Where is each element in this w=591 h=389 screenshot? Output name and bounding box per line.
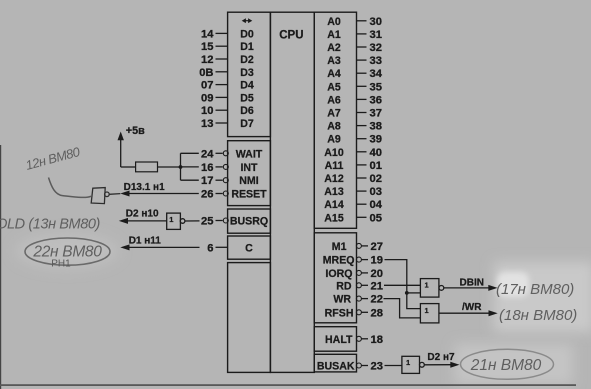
wire to pin 17	[181, 179, 199, 181]
svg-text:16: 16	[201, 162, 213, 174]
svg-text:09: 09	[201, 92, 213, 104]
svg-text:D1: D1	[240, 41, 254, 53]
svg-text:02: 02	[370, 173, 382, 185]
D0-D7 labels	[240, 28, 254, 130]
svg-text:RD: RD	[336, 280, 352, 292]
svg-text:30: 30	[370, 16, 382, 28]
svg-text:A10: A10	[324, 147, 344, 159]
svg-text:24: 24	[201, 148, 214, 160]
svg-text:01: 01	[370, 160, 382, 172]
svg-text:RFSH: RFSH	[325, 307, 354, 319]
svg-text:39: 39	[370, 134, 382, 146]
svg-text:D2 н10: D2 н10	[126, 208, 159, 219]
svg-text:D2 н7: D2 н7	[427, 352, 455, 363]
svg-text:13: 13	[201, 118, 213, 130]
CPU left sub-box BUSRQ	[228, 209, 271, 233]
svg-text:15: 15	[201, 41, 213, 53]
svg-text:1: 1	[425, 306, 429, 315]
A pin stubs	[357, 21, 367, 218]
svg-text:A11: A11	[325, 160, 344, 172]
svg-text:D13.1 н1: D13.1 н1	[124, 182, 166, 193]
wire WR 22 to gate2	[384, 299, 421, 318]
svg-text:MREQ: MREQ	[323, 255, 355, 267]
svg-text:M1: M1	[332, 241, 347, 253]
gate U1 DBIN	[420, 279, 443, 298]
svg-text:34: 34	[370, 68, 383, 80]
svg-text:D4: D4	[240, 80, 254, 92]
svg-text:0B: 0B	[199, 67, 213, 79]
svg-text:HALT: HALT	[325, 334, 353, 346]
svg-text:26: 26	[201, 189, 213, 201]
svg-text:22: 22	[371, 294, 383, 306]
gate U2 WR	[420, 304, 439, 323]
svg-text:23: 23	[371, 361, 383, 373]
svg-text:38: 38	[370, 121, 382, 133]
junction dot	[179, 165, 183, 169]
svg-text:33: 33	[370, 55, 382, 67]
light patch behind left oval	[15, 233, 119, 269]
svg-text:20: 20	[371, 268, 383, 280]
svg-text:1: 1	[425, 281, 429, 290]
svg-text:A4: A4	[327, 68, 341, 80]
svg-text:32: 32	[370, 42, 382, 54]
svg-text:A5: A5	[327, 81, 341, 93]
svg-text:36: 36	[370, 94, 382, 106]
svg-text:WAIT: WAIT	[236, 148, 263, 160]
right control bubbles	[356, 243, 361, 368]
wire resistor to junction	[158, 166, 181, 168]
svg-text:D6: D6	[240, 105, 254, 117]
svg-text:A13: A13	[324, 186, 344, 198]
resistor R1	[136, 162, 158, 172]
A pin numbers	[370, 16, 383, 225]
D pin stubs	[216, 33, 228, 123]
svg-text:D0: D0	[240, 28, 254, 40]
svg-text:40: 40	[370, 147, 382, 159]
CPU right sub-box BUSAK	[314, 354, 356, 372]
svg-text:+5в: +5в	[126, 125, 145, 137]
svg-text:DBIN: DBIN	[460, 277, 484, 288]
svg-text:D3: D3	[240, 67, 254, 79]
svg-text:27: 27	[371, 241, 383, 253]
svg-text:10: 10	[201, 105, 213, 117]
svg-text:25: 25	[201, 216, 213, 228]
wire to pin 16	[181, 166, 199, 168]
handwritten oval 21n VM80	[461, 349, 554, 379]
svg-text:1: 1	[169, 215, 173, 224]
RESET wire with left arrow	[120, 191, 199, 197]
svg-text:A6: A6	[327, 94, 341, 106]
svg-text:INT: INT	[240, 162, 258, 174]
svg-text:A15: A15	[324, 212, 344, 224]
inversion bubbles left pins	[223, 151, 228, 223]
+5V arrow	[118, 132, 136, 168]
svg-text:04: 04	[370, 199, 383, 211]
svg-text:35: 35	[370, 81, 382, 93]
CPU middle box	[270, 12, 314, 372]
svg-text:31: 31	[370, 29, 382, 41]
svg-text:РН1: РН1	[51, 259, 71, 270]
wire BUSAK 23 to gate3	[385, 365, 402, 367]
CPU right sub-box HALT	[314, 327, 356, 352]
svg-text:D5: D5	[240, 92, 254, 104]
scan dark edge left	[0, 145, 1, 389]
wire to pin 24	[181, 152, 199, 154]
scan fold line bottom	[0, 384, 576, 386]
svg-text:(17н ВМ80): (17н ВМ80)	[496, 281, 574, 298]
white-out patch behind 17	[497, 272, 529, 297]
CPU left sub-box empty	[228, 263, 271, 373]
svg-text:05: 05	[370, 212, 382, 224]
wire +5V to resistor	[121, 166, 136, 168]
svg-text:6: 6	[207, 242, 213, 254]
svg-text:A12: A12	[324, 173, 344, 185]
pencil squiggle to gate input	[49, 178, 92, 198]
svg-text:D1 н11: D1 н11	[129, 236, 162, 247]
svg-text:C: C	[245, 242, 253, 254]
wire RD 21 to gate1	[384, 284, 420, 286]
light paper patch behind right annotations	[494, 262, 591, 332]
svg-text:NMI: NMI	[239, 175, 258, 187]
svg-text:BUSRQ: BUSRQ	[230, 216, 268, 228]
pull-up bus vertical	[180, 153, 182, 180]
svg-text:CPU: CPU	[279, 29, 303, 41]
svg-text:17: 17	[201, 175, 213, 187]
svg-text:A7: A7	[327, 108, 341, 120]
svg-text:A14: A14	[324, 199, 344, 211]
CPU left sub-box WAIT/INT/NMI/RESET	[228, 141, 271, 206]
svg-text:A8: A8	[327, 121, 341, 133]
left control pin stubs	[216, 153, 228, 247]
svg-text:RESET: RESET	[231, 189, 267, 201]
svg-text:28: 28	[371, 307, 383, 319]
svg-text:(18н ВМ80): (18н ВМ80)	[499, 307, 577, 324]
svg-text:18: 18	[371, 334, 383, 346]
svg-text:03: 03	[370, 186, 382, 198]
svg-text:19: 19	[371, 255, 383, 267]
svg-text:D2: D2	[240, 54, 254, 66]
svg-text:BUSAK: BUSAK	[317, 361, 355, 373]
A0-A15 labels	[324, 16, 344, 225]
light patch behind bottom-right oval	[455, 344, 573, 384]
svg-text:12: 12	[201, 54, 213, 66]
svg-text:21: 21	[371, 280, 383, 292]
gate U3 BUSAK	[402, 356, 424, 373]
CPU left sub-box C	[228, 236, 271, 259]
BUSAK output arrow	[424, 362, 459, 368]
svg-text:IORQ: IORQ	[325, 268, 352, 280]
junction dot MREQ branch	[405, 291, 409, 295]
svg-text:D7: D7	[240, 118, 254, 130]
BUSRQ wire with left arrow	[119, 218, 167, 224]
CPU right sub-box M1..RFSH	[314, 233, 356, 323]
svg-text:A3: A3	[327, 55, 341, 67]
svg-text:07: 07	[201, 80, 213, 92]
handwritten oval 22n VM80	[25, 238, 110, 265]
svg-text:A0: A0	[327, 16, 341, 28]
svg-text:A9: A9	[327, 134, 341, 146]
inverter D2 for BUSRQ	[167, 213, 200, 229]
svg-text:21н ВМ80: 21н ВМ80	[470, 357, 542, 374]
data bus bidirectional symbol	[242, 18, 253, 23]
hand-drawn gate D13.1	[91, 188, 120, 204]
svg-text:/WR: /WR	[462, 302, 482, 313]
left control pin numbers	[201, 148, 214, 254]
DBIN output arrow	[444, 285, 498, 291]
CPU right sub-box A0-A15	[314, 12, 356, 228]
CPU left sub-box D0-D7	[228, 12, 271, 136]
M1..RFSH HALT BUSAK labels	[317, 241, 355, 373]
svg-text:HOLD (13н ВМ80): HOLD (13н ВМ80)	[0, 217, 100, 233]
svg-text:A1: A1	[327, 29, 341, 41]
svg-text:A2: A2	[327, 42, 341, 54]
svg-text:14: 14	[201, 28, 214, 40]
right control stubs	[361, 246, 368, 366]
WAIT INT NMI RESET labels	[230, 148, 268, 254]
wire MREQ 19 to gates	[385, 260, 421, 309]
right control pin numbers	[371, 241, 383, 373]
C wire with left arrow	[120, 244, 199, 250]
WR output arrow	[439, 310, 498, 316]
D pin numbers	[199, 28, 214, 130]
svg-text:WR: WR	[333, 294, 351, 306]
svg-text:1: 1	[406, 358, 410, 367]
svg-text:37: 37	[370, 108, 382, 120]
